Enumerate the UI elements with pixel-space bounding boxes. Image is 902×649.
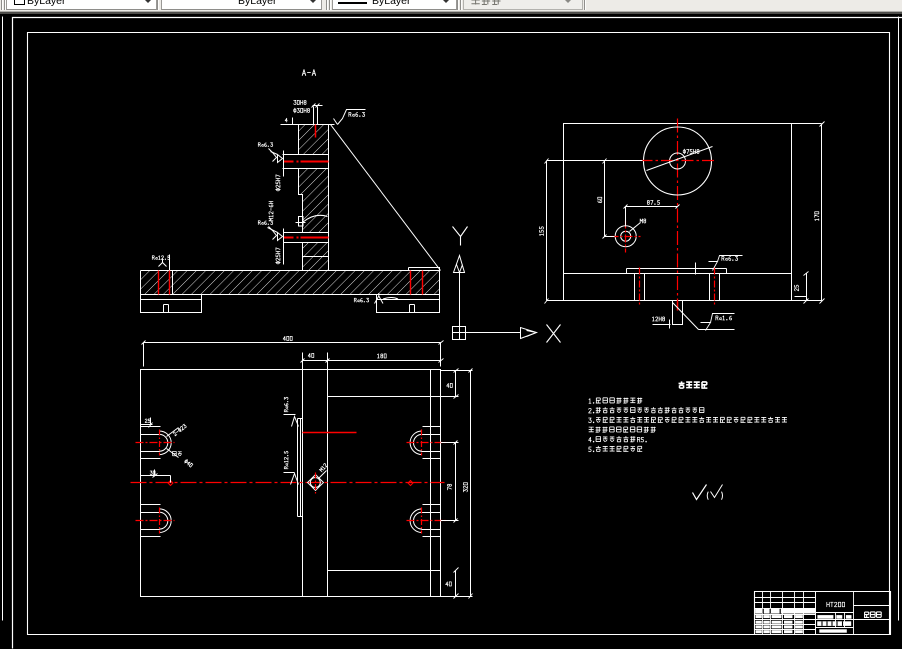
right foot (377, 295, 440, 313)
tech req line 6 (589, 447, 594, 452)
left foot (141, 295, 202, 313)
plan center hole (310, 478, 320, 488)
slot upper-right (423, 427, 441, 459)
center hole diamond (308, 475, 324, 491)
tenon leader diagonal (673, 303, 735, 330)
column outline (281, 125, 335, 271)
title block grid (755, 592, 816, 635)
slot walls right (710, 274, 720, 301)
bore inner circle (670, 153, 686, 169)
title block small texts (817, 615, 833, 619)
hole band 1 walls (283, 155, 329, 169)
toolbar grip (457, 0, 458, 10)
dim 40 bottom right (455, 571, 457, 597)
step line lower (328, 570, 441, 572)
right flange wall (430, 370, 432, 597)
rib flange strip (298, 419, 303, 517)
dim 40 right step (441, 371, 473, 397)
dim 25 top-left (145, 419, 150, 423)
dim ticks top (293, 106, 323, 125)
hole band 1 centerline red (284, 161, 329, 163)
bore centerline red horizontal (641, 160, 717, 162)
hatch base plate (141, 270, 440, 295)
tech req line 3 (589, 418, 594, 423)
band1 label rotated (276, 175, 281, 191)
UCS X letter (547, 325, 561, 343)
datum cross (689, 263, 701, 275)
slot centerline red right (714, 268, 716, 305)
toolbar grip (326, 0, 327, 10)
dim 12 tenon (653, 317, 665, 321)
canvas left edge line (2, 17, 4, 621)
dimension oblique ticks (142, 104, 825, 599)
base plate outline (141, 271, 440, 295)
tech req line 2 (589, 408, 594, 413)
dim 170 right vertical (792, 124, 822, 301)
rib walls (303, 370, 328, 597)
surface mark right foot (354, 298, 368, 302)
hole band 2 centerline red (284, 237, 329, 239)
combo lineweight control (332, 0, 457, 10)
dim 320 right (441, 371, 473, 597)
band1 surface mark (269, 149, 277, 162)
base step (627, 269, 727, 274)
slot centerline red left (639, 268, 641, 305)
tech req line 5 (589, 437, 594, 442)
toolbar (0, 0, 902, 11)
part name text (864, 612, 881, 618)
toolbar grip (1, 0, 2, 10)
column inner shelf line (303, 256, 329, 258)
boss arc (303, 215, 328, 222)
UCS Y letter (453, 227, 468, 246)
band2 arrow + leader (278, 229, 284, 265)
combo plotstyle control (disabled) (463, 0, 583, 10)
top hole axis red (315, 125, 317, 138)
side view outline (564, 124, 792, 301)
title block cell texts (756, 615, 762, 618)
bottom tenon (673, 301, 683, 325)
small hole red cross (611, 221, 641, 253)
base slot white line left (172, 271, 174, 295)
dim 78 right (441, 443, 459, 521)
base top right pad (409, 268, 440, 271)
slot lower-right (423, 505, 441, 537)
toolbar grip (157, 0, 158, 10)
slot lower-left (141, 505, 161, 537)
hole band 2 walls (284, 233, 329, 243)
tech req line 4 (589, 427, 656, 432)
plan surface mark 1 (284, 415, 299, 427)
plan outline (141, 370, 441, 597)
main centerline red vertical (677, 119, 679, 311)
dim 87.5 horizontal (626, 207, 678, 227)
small hole outer (615, 226, 636, 247)
step line upper (328, 396, 441, 398)
slot upper-left (141, 427, 161, 459)
UCS Y axis (454, 256, 465, 327)
dim 30 left (150, 471, 155, 475)
slot leader 1 (167, 428, 179, 437)
combo linetype control (161, 0, 322, 10)
UCS X axis (466, 328, 537, 339)
rib centerline red short (303, 432, 357, 434)
slot walls left (635, 274, 645, 301)
main bore circle (644, 127, 712, 195)
title block outer (755, 592, 891, 635)
base top line (564, 273, 792, 275)
dim 155 left vertical (547, 161, 564, 301)
tech req line 1 (589, 399, 594, 404)
UCS origin box (453, 327, 466, 340)
boss pocket square (296, 217, 306, 227)
small hole leader (630, 223, 641, 232)
dim 180 (303, 353, 441, 370)
base slot red lines right (411, 271, 423, 295)
material text HT200 (827, 602, 845, 607)
main centerline red horizontal (131, 482, 445, 484)
toolbar shadow ramp (0, 11, 902, 12)
plan surface mark 2 (284, 473, 299, 485)
gusset rib diagonal (331, 125, 441, 271)
centerline diamonds (168, 481, 413, 486)
bore leader chord (647, 147, 713, 171)
center hole leader (319, 471, 327, 479)
dim 25 right (795, 274, 807, 301)
band1 arrow + leader (271, 151, 284, 177)
hatch column upper (299, 125, 329, 154)
title block material box (816, 592, 854, 635)
bore label (683, 149, 699, 154)
band2 surface mark (269, 227, 277, 240)
slot leader 2 (167, 449, 179, 458)
surface mark in view (709, 256, 743, 271)
tech requirements title (679, 381, 708, 388)
surface mark base left (Ra12.5) (152, 256, 169, 260)
combo color control (6, 0, 157, 10)
ext line circle center (547, 160, 643, 162)
dim 400 top (144, 343, 441, 367)
surface mark below tenon (701, 314, 735, 331)
base slot red lines left (159, 271, 170, 295)
hatch column middle (299, 169, 329, 232)
surface finish top (Ra6.3) (334, 110, 366, 125)
canvas right edge line (898, 17, 900, 621)
section label A-A (302, 70, 315, 76)
band2 leader text rotated (268, 228, 278, 233)
title block signature row (755, 609, 815, 614)
dim 60 vertical (605, 161, 615, 237)
band2 label rotated (276, 248, 281, 264)
small hole inner (621, 231, 631, 241)
dim text 30H8 (294, 100, 306, 104)
part name box (854, 606, 891, 620)
hatch column lower (303, 242, 328, 270)
rest surface mark (693, 485, 707, 500)
dim text 4 (285, 118, 287, 122)
